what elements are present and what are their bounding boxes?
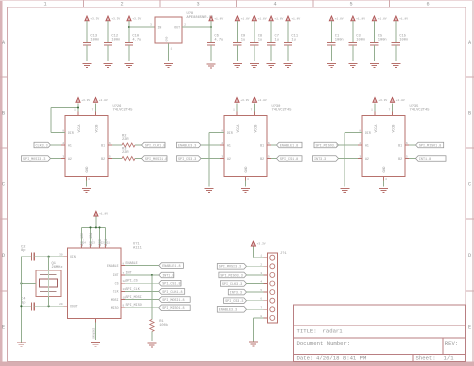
pin B1 U?26 [108,144,112,146]
wire C5 to ground [373,45,375,61]
wire B2 U?35 [409,158,416,160]
svg-text:C: C [2,182,5,188]
net flag INT3.3 connector [228,289,246,295]
svg-text:+1.8V: +1.8V [258,17,267,20]
svg-text:Date:: Date: [297,355,314,362]
power +1.8V arrow for C11 [286,16,290,21]
net flag RPI_INT [313,156,339,162]
resistor R1 100k [150,320,154,332]
svg-text:1/1: 1/1 [444,355,455,362]
svg-text:1u: 1u [241,38,245,42]
wire +1.8V to C9 [236,21,238,43]
svg-text:Document Number:: Document Number: [297,340,351,347]
svg-text:VDD_18A: VDD_18A [89,233,93,247]
svg-text:Sheet:: Sheet: [416,355,436,362]
wire A2 U?30 [201,158,220,160]
net flag CLK1 [34,142,51,148]
ground pin U?26 [86,177,88,181]
power +1.8V arrow for C15 [394,16,398,21]
svg-text:B2: B2 [398,157,402,161]
voltage regulator U?8 [155,17,182,43]
pin B2 U?35 [405,158,409,160]
net flag SPI_MISO1.8 [159,305,190,311]
svg-text:B2: B2 [260,157,264,161]
svg-text:TITLE:: TITLE: [297,328,317,335]
ground C12 [104,63,113,65]
svg-text:74LVC2T45: 74LVC2T45 [272,109,292,113]
power +1.8V arrow radar [94,211,98,216]
net flag SPI_MOSI1.8 [159,297,190,303]
ground C7 [267,63,276,65]
pin A1 U?26 [61,144,65,146]
wire B2 U?24 to R3 [112,158,122,160]
power +1.8V arrow for C8 [252,16,256,21]
wire ENABLE [125,265,159,267]
svg-text:A1: A1 [68,143,72,147]
wire B1 U?35 [409,144,416,146]
wire +3.3V to C13 [86,21,88,43]
wire C7 to ground [270,45,272,61]
svg-text:INT: INT [113,273,119,277]
capacitor C9 1u [233,42,241,44]
svg-text:4: 4 [273,2,276,8]
wire A1 U?35 [339,144,359,146]
svg-text:+1.8V: +1.8V [258,99,267,102]
svg-text:+1.8V: +1.8V [356,17,365,20]
ground C1 [327,63,336,65]
wire C11 to ground [287,45,289,61]
ground DIR U?35 [340,188,349,190]
wire A1 U?30 [201,144,220,146]
wire ENABLE3.3 [247,308,264,310]
frame row ticks and letters [0,76,8,78]
node junction DIR-VCCA U?24 [77,106,79,108]
svg-text:SPI_CS: SPI_CS [126,280,138,284]
capacitor C3 100n [349,42,357,44]
node VDD junctions [89,226,91,228]
svg-text:B2: B2 [101,157,105,161]
svg-text:MOSI: MOSI [111,298,119,302]
svg-text:+1.8V: +1.8V [378,17,387,20]
svg-text:IN: IN [158,25,162,29]
svg-text:1u: 1u [258,38,262,42]
svg-text:22: 22 [101,242,105,245]
svg-text:B1: B1 [398,143,402,147]
svg-text:B: B [468,111,471,117]
power +3.3V arrow for C10 [127,16,131,21]
wire VIN to regulator [129,26,155,28]
net flag SPI_CLK3.3 connector [220,281,246,287]
net flag SPI_CLK1.8 [159,289,185,295]
svg-text:100n: 100n [356,38,365,42]
svg-text:100k: 100k [159,323,169,328]
wire VDD bus [82,226,106,228]
svg-text:SPI_MISO3.3: SPI_MISO3.3 [220,274,242,278]
wire XOUT net [21,305,31,307]
capacitor C5 100n [370,42,378,44]
wire SPI_CS [125,282,159,284]
svg-text:SPI_MOSI3.3: SPI_MOSI3.3 [23,158,45,162]
svg-text:SPI_CS1.8: SPI_CS1.8 [162,283,180,287]
pin A1 U?35 [358,144,362,146]
svg-text:INT: INT [126,271,132,275]
svg-text:ENABLE3.3: ENABLE3.3 [178,144,196,148]
svg-text:MISO: MISO [111,306,119,310]
power +3.3V arrow U?26 VCCA [77,112,79,116]
capacitor C13 100n [83,42,91,44]
svg-text:4.7u: 4.7u [214,38,223,42]
wire regulator OUT [182,26,211,28]
svg-text:+1.8V: +1.8V [396,99,405,102]
capacitor C1 100n [327,42,335,44]
resistor R2 22R [122,143,135,147]
power +1.8V arrow at regulator output [209,16,213,21]
pin A2 U?30 [220,158,224,160]
svg-text:2: 2 [120,2,123,8]
svg-text:A2: A2 [227,157,231,161]
wire A2 U?24 [51,158,62,160]
wire B2 U?30 [271,158,277,160]
wire DIR U?35 to ground [358,132,362,134]
wire +3.3V to C12 [107,21,109,43]
wire +1.8V to C11 [287,21,289,43]
svg-text:GND@3X3: GND@3X3 [91,327,95,339]
pin A1 U?30 [220,144,224,146]
ground C10 [125,63,134,65]
svg-text:D: D [468,253,471,259]
net flag SPI_CS1.8 [159,280,181,286]
net flag ENABLE1.8 [159,263,184,269]
svg-text:VCCB: VCCB [391,125,395,133]
svg-text:VDD_18X: VDD_18X [80,233,84,247]
svg-text:+1.8V: +1.8V [399,17,408,20]
power +1.8V arrow for C7 [269,16,273,21]
ground pin U?30 [245,177,247,181]
svg-text:DIR: DIR [68,131,74,135]
title block [294,305,466,362]
svg-text:74LVC2T45: 74LVC2T45 [410,109,430,113]
wire R2 to flag [135,144,142,146]
wire SPI_CLK3.3 [247,283,264,285]
wire DIR U?24 to VCCA [61,132,65,134]
svg-text:XOUT: XOUT [70,305,78,309]
svg-text:DIR: DIR [227,131,233,135]
svg-text:E: E [2,325,5,331]
power +3.3V arrow connector [251,241,255,246]
wire XIN net [21,256,31,258]
wire crystal through [48,270,50,296]
svg-text:OUT: OUT [174,25,180,29]
svg-text:22R: 22R [122,138,129,142]
svg-text:+1.8V: +1.8V [99,99,108,102]
op-amp level shifter U?30 74LVC2T45 [224,116,267,177]
capacitor C15 100n [392,42,400,44]
wire INT [125,274,159,276]
svg-text:CLK: CLK [113,290,119,294]
wire C12 to ground [107,45,109,61]
svg-text:100n: 100n [111,38,120,42]
pin B1 U?30 [267,144,271,146]
ground connector [249,341,258,343]
net flag INT1.8 [159,272,174,278]
capacitor C8 1u [250,42,258,44]
wire crystal case ground [21,282,36,284]
wire +1.8V to C7 [270,21,272,43]
svg-text:+1.8V: +1.8V [274,17,283,20]
power +1.8V arrow for C1 [329,16,333,21]
svg-text:ENABLE3.3: ENABLE3.3 [219,309,237,313]
svg-text:+1.8V: +1.8V [214,17,223,20]
op-amp level shifter U?35 74LVC2T45 [362,116,405,177]
svg-text:E: E [468,325,471,331]
capacitor C10 4.7u [125,42,133,44]
capacitor C7 1u [267,42,275,44]
power +3.3V arrow U?35 VCCA [374,112,376,116]
ground C11 [284,63,293,65]
svg-text:6: 6 [426,2,429,8]
pin A2 U?26 [61,158,65,160]
wire C3 to ground [352,45,354,61]
wire INT to R1 [151,275,153,320]
svg-text:REV:: REV: [445,340,458,347]
svg-text:GND: GND [382,167,386,173]
svg-text:+1.8V: +1.8V [99,213,108,216]
svg-text:4/26/18 8:41 PM: 4/26/18 8:41 PM [316,355,366,362]
ground C5 [370,63,379,65]
capacitor C12 100n [104,42,112,44]
ground crystal rail [17,342,26,344]
wire pin8 to ground [253,317,263,319]
svg-text:+3.3V: +3.3V [378,99,387,102]
net flag ENABLE_1.8 [277,142,303,148]
wire B1 U?24 to R2 [112,144,122,146]
pin B1 U?35 [405,144,409,146]
svg-text:B1: B1 [260,143,264,147]
wire +1.8V to C8 [253,21,255,43]
ground radar GND pin [95,319,97,323]
svg-text:VCCB: VCCB [253,125,257,133]
svg-text:GND: GND [85,167,89,173]
svg-text:A2: A2 [68,157,72,161]
svg-text:+3.3V: +3.3V [81,99,90,102]
svg-text:30: 30 [59,254,63,257]
svg-text:SPI_MOSI3.3: SPI_MOSI3.3 [219,266,241,270]
node INT junction [151,274,153,276]
resistor R3 22R [122,157,135,161]
wire +1.8V to C1 [330,21,332,43]
net flag MOSI_1.8 [142,156,168,162]
svg-text:A1: A1 [227,143,231,147]
svg-text:radar1: radar1 [323,328,344,335]
wire crystal top [48,257,50,271]
svg-text:SPI_MOSI1.8: SPI_MOSI1.8 [145,158,167,162]
svg-text:100n: 100n [378,38,387,42]
svg-text:B: B [2,111,5,117]
net flag RPI_MISO [314,142,339,148]
net flag SPI_CS1 [177,156,202,162]
net flag SPI_CS3.3 connector [224,298,247,304]
net flag MISO_1.8 [416,142,444,148]
pin XIN radar [64,256,68,258]
capacitor C11 1u [284,42,292,44]
svg-text:23: 23 [92,242,96,245]
node XIN junction [48,256,50,258]
svg-text:GND: GND [244,167,248,173]
svg-text:29: 29 [59,303,63,306]
wire SPI_CLK [125,290,159,292]
svg-text:+3.3V: +3.3V [90,17,99,20]
wire pin1 to +3.3V [253,257,263,259]
capacitor C6 [210,27,212,43]
power +1.8V arrow for C9 [235,16,239,21]
svg-text:1: 1 [43,2,46,8]
svg-text:ENABLE1.8: ENABLE1.8 [280,144,298,148]
svg-text:CS: CS [115,281,119,285]
svg-text:SPI_MOSI: SPI_MOSI [126,296,142,300]
wire SPI_MISO3.3 [247,274,264,276]
wire SPI_MISO [125,307,159,309]
svg-text:CLK3.3: CLK3.3 [36,144,48,148]
wire C13 to ground [86,45,88,61]
svg-text:ENABLE: ENABLE [126,262,138,266]
svg-text:SPI_CLK3.3: SPI_CLK3.3 [222,283,242,287]
svg-text:XIN: XIN [70,255,76,259]
wire C9 to ground [236,45,238,61]
svg-text:21: 21 [107,242,111,245]
node VOUT junction [210,26,212,28]
net flag SPI_CS_1.8 [277,156,303,162]
wire SPI_MOSI3.3 [247,265,264,267]
svg-text:+3.3V: +3.3V [257,243,266,246]
wire +3.3V to C10 [128,21,130,43]
regulator ground pin [168,43,170,61]
crystal Q1 26MHz [36,270,61,296]
power +3.3V arrow for C13 [85,16,89,21]
svg-text:INT1.8: INT1.8 [162,274,174,278]
pin DIR U?30 [220,132,224,134]
net flag ENABLE1 [177,142,202,148]
svg-text:1u: 1u [275,38,279,42]
svg-text:ENABLE: ENABLE [107,264,119,268]
wire +1.8V to C5 [373,21,375,43]
svg-text:SPI_CS3.3: SPI_CS3.3 [178,158,196,162]
svg-text:1u: 1u [291,38,295,42]
wire C1 to ground [330,45,332,61]
svg-text:100n: 100n [90,38,99,42]
wire +1.8V to C15 [395,21,397,43]
wire SPI_MOSI [125,299,159,301]
svg-text:100n: 100n [399,38,408,42]
wire crystal ground rail [20,257,22,343]
svg-text:+1.8V: +1.8V [241,17,250,20]
wire R1 to ground [151,332,153,342]
power +1.8V arrow U?30 VCCB [254,112,256,116]
svg-text:SPI_CS3.3: SPI_CS3.3 [225,300,243,304]
svg-text:SPI_CLK: SPI_CLK [126,288,141,292]
svg-text:SPI_MISO: SPI_MISO [126,304,142,308]
net flag INT_1.8 [416,156,447,162]
frame column ticks and numbers [83,0,85,7]
svg-text:SPI_CS1.8: SPI_CS1.8 [280,158,298,162]
ground pin U?35 [383,177,385,181]
wire A2 U?35 [339,158,359,160]
svg-text:4.7u: 4.7u [132,38,141,42]
svg-text:5: 5 [349,2,352,8]
connector J1 pin header [267,253,277,323]
svg-text:+1.8V: +1.8V [291,17,300,20]
svg-text:SPI_MISO1.8: SPI_MISO1.8 [162,307,184,311]
power +1.8V arrow for C3 [351,16,355,21]
wire A1 U?24 [51,144,62,146]
net flag ENABLE3.3 connector [217,307,246,313]
net flag SPI_MOSI3.3 connector [217,264,246,270]
pin B2 U?30 [267,158,271,160]
net flag RPI_MOSI [22,156,51,162]
node XOUT junction [48,305,50,307]
ground R1 [147,342,156,344]
svg-text:INT3.3: INT3.3 [314,158,326,162]
svg-text:+3.3V: +3.3V [132,17,141,20]
node VIN junction [128,26,130,28]
wire C8 to ground [253,45,255,61]
svg-text:A2: A2 [365,157,369,161]
svg-text:J?1: J?1 [280,252,287,256]
svg-text:SPI_CLK1.8: SPI_CLK1.8 [145,144,165,148]
wire crystal bottom [48,296,50,306]
wire SPI_CS3.3 [247,300,264,302]
svg-text:VCCA: VCCA [236,125,240,133]
power +3.3V arrow U?30 VCCA [236,112,238,116]
wire B1 U?30 [271,144,277,146]
svg-text:24: 24 [83,242,87,245]
svg-text:VCCA: VCCA [374,125,378,133]
pin DIR U?26 [61,132,65,134]
svg-text:GND: GND [165,36,168,41]
net flag SPI_MISO3.3 connector [219,272,247,278]
svg-text:VCCB: VCCB [94,125,98,133]
svg-text:8p: 8p [21,249,25,253]
svg-text:B1: B1 [101,143,105,147]
op-amp level shifter U?26 74LVC2T45 [65,116,108,177]
wire R3 to flag [135,158,142,160]
svg-text:SPI_MISO3.3: SPI_MISO3.3 [316,144,338,148]
svg-text:SPI_MOSI1.8: SPI_MOSI1.8 [162,299,184,303]
net flag CLK_1.8 [142,142,166,148]
svg-text:ENABLE1.8: ENABLE1.8 [162,265,180,269]
ground DIR U?30 [205,188,214,190]
pin A2 U?35 [358,158,362,160]
radar IC U?1 A111 [68,248,122,319]
svg-text:100n: 100n [335,38,344,42]
svg-text:22R: 22R [122,151,129,155]
svg-text:INT1.8: INT1.8 [419,158,431,162]
wire INT3.3 [247,291,264,293]
svg-text:74LVC2T45: 74LVC2T45 [113,109,133,113]
power +1.8V arrow U?35 VCCB [392,112,394,116]
svg-text:INT3.3: INT3.3 [230,292,242,296]
svg-text:A111: A111 [133,246,143,250]
ground C9 [233,63,242,65]
power +1.8V arrow U?26 VCCB [95,112,97,116]
wire DIR U?30 to ground [220,132,224,134]
ground C8 [250,63,259,65]
ground C3 [348,63,357,65]
ground C15 [391,63,400,65]
svg-text:VCCA: VCCA [77,125,81,133]
pin XOUT radar [64,305,68,307]
svg-text:3: 3 [196,2,199,8]
wire +1.8V to C3 [352,21,354,43]
